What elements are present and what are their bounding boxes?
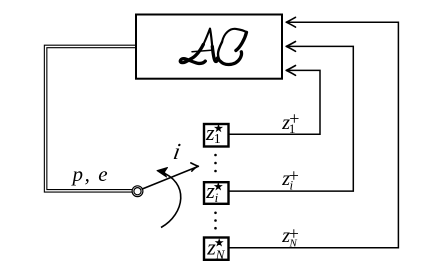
svg-text:1: 1 (289, 121, 296, 136)
svg-text:1: 1 (214, 132, 221, 147)
svg-text:i: i (290, 178, 294, 193)
svg-text:i: i (215, 190, 219, 205)
svg-text:N: N (215, 247, 226, 262)
svg-text:N: N (289, 237, 298, 249)
svg-text:p, e: p, e (71, 162, 110, 186)
